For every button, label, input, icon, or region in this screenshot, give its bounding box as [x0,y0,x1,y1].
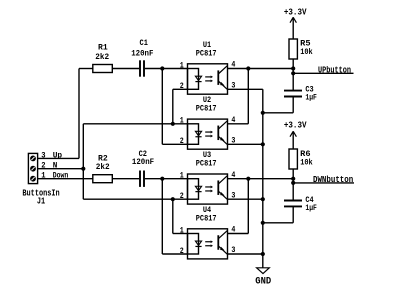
svg-text:1µF: 1µF [305,204,317,213]
wire to U2 pin2 [162,143,187,145]
svg-text:2k2: 2k2 [95,53,109,62]
svg-text:2: 2 [180,247,184,256]
capacitor C3 [284,91,302,97]
wire N branch up [172,89,174,124]
wire N to U3 pin2 [83,198,187,200]
junction Up node [160,66,164,70]
svg-text:2k2: 2k2 [96,163,110,172]
wire net UPbutton [293,72,353,74]
wire N vertical [82,124,84,199]
svg-text:PC817: PC817 [196,49,217,58]
svg-text:2: 2 [180,192,184,201]
wire U2 pin4 [228,123,249,125]
wire Up vertical [78,69,80,159]
resistor R5 [289,39,297,59]
wire C2 to U3 pin1 [145,178,188,180]
connector J1 ButtonsIn [28,153,37,183]
wire ground bus [262,89,264,267]
junction Down node [160,177,164,181]
svg-text:UPbutton: UPbutton [318,64,351,75]
wire C4 bottom [292,207,294,223]
svg-text:J1: J1 [37,196,46,206]
junction C3 bus [261,111,265,115]
opto-coupler U2 PC817 [188,119,228,149]
svg-text:1: 1 [180,61,184,70]
junction DWNbutton stub [291,181,295,185]
wire U1 pin3 to bus [228,88,263,90]
junction R5 node [291,66,295,70]
power +3.3V lower [290,131,296,149]
junction U3 pin3 bus [261,197,265,201]
wire collector link upper [247,69,249,124]
wire R1 to C1 [112,68,139,70]
ground GND [257,268,270,274]
svg-text:120nF: 120nF [131,50,153,59]
junction collectors lower [246,177,250,181]
svg-text:+3.3V: +3.3V [284,120,307,131]
wire N to U2 pin1 [83,123,187,125]
wire J1 pin3 Up [38,157,79,159]
wire to U1 pin2 [173,88,188,90]
wire U3 pin4 to R6 node [228,178,294,180]
wire U2 pin3 to bus [228,143,263,145]
junction UPbutton stub [291,71,295,75]
svg-text:PC817: PC817 [196,105,217,114]
wire Up to R1 [79,68,93,70]
svg-text:1: 1 [180,172,184,181]
wire to U4 pin2 [162,253,187,255]
wire J1 pin1 Down to R2 [38,178,93,180]
wire to U4 pin1 [173,233,188,235]
junction U2 pin3 bus [261,142,265,146]
svg-text:120nF: 120nF [132,158,154,167]
wire N branch down [172,199,174,233]
resistor R2 [93,175,113,183]
svg-text:10k: 10k [300,48,313,57]
wire collector link lower [247,179,249,234]
junction C4 bus [261,221,265,225]
wire C3 bottom [292,97,294,113]
svg-text:PC817: PC817 [196,160,217,169]
wire C4 to bus [263,222,293,224]
svg-text:2: 2 [180,137,184,146]
capacitor C2 [140,171,144,187]
wire C1 to U1 pin1 [145,68,188,70]
svg-text:1µF: 1µF [305,94,317,103]
junction N [81,167,85,171]
wire R5 to C3 [292,59,294,90]
svg-text:+3.3V: +3.3V [284,7,307,18]
wire U4 pin4 [228,233,249,235]
wire Down node down [161,179,163,254]
svg-text:R1: R1 [98,43,108,52]
junction N lower [171,197,175,201]
svg-text:1: 1 [180,117,184,126]
opto-coupler U4 PC817 [188,229,228,259]
svg-text:C1: C1 [140,39,149,48]
svg-text:2: 2 [180,82,184,91]
svg-text:PC817: PC817 [196,214,217,223]
wire R6 to C4 [292,169,294,200]
wire U4 pin3 to bus [228,253,263,255]
capacitor C1 [140,60,144,76]
wire net DWNbutton [293,182,354,184]
wire J1 pin2 N [38,168,84,170]
svg-text:GND: GND [255,276,271,287]
wire C3 to bus [263,112,293,114]
resistor R1 [93,65,113,73]
wire U3 pin3 to bus [228,198,263,200]
wire R2 to C2 [112,178,139,180]
opto-coupler U3 PC817 [188,174,228,204]
power +3.3V upper [290,17,296,39]
resistor R6 [289,149,297,169]
junction R6 node [291,177,295,181]
capacitor C4 [284,201,302,207]
svg-text:DWNbutton: DWNbutton [313,174,354,185]
svg-text:10k: 10k [300,158,313,167]
junction N upper [171,122,175,126]
junction collectors upper [246,66,250,70]
opto-coupler U1 PC817 [188,64,228,94]
junction U4 pin3 bus [261,252,265,256]
svg-text:1: 1 [180,226,184,235]
wire Up node down [161,69,163,145]
wire U1 pin4 to R5 node [228,68,294,70]
